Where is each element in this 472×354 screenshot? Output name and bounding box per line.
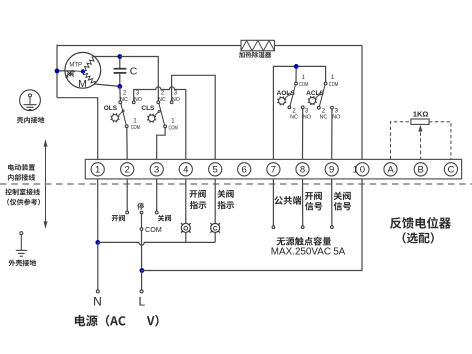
node: capacitor top junction [117, 54, 122, 59]
svg-text:MTP: MTP [69, 63, 82, 69]
label keinei [17, 117, 45, 124]
indicator lamp C (close) [210, 223, 220, 233]
terminal 3 [150, 163, 163, 176]
svg-text:0: 0 [360, 165, 365, 176]
motor winding left with thermal protector [57, 70, 75, 72]
svg-text:2: 2 [123, 90, 127, 96]
wire: heater return, terminal 10 down and left to L junction [142, 179, 362, 271]
terminal 9 [325, 163, 338, 176]
terminal strip box [85, 159, 461, 179]
dashed separator line (internal/external) [0, 183, 472, 185]
svg-text:3: 3 [136, 90, 140, 96]
label xuanpei [403, 232, 434, 243]
label dianyuan2 [147, 315, 159, 327]
stop button point [140, 211, 143, 214]
label guanfaxinhao2 [334, 202, 351, 210]
wire: N junction down to N [97, 242, 99, 290]
label gonggongduan [274, 196, 301, 205]
terminal 6 [238, 163, 251, 176]
wire: terminal 4 down to lamp O [185, 179, 187, 224]
svg-text:4: 4 [183, 165, 188, 176]
junction on COM bus [294, 64, 299, 69]
terminal 4 [179, 163, 192, 176]
wire: elbow to terminal 1 riser [57, 98, 98, 160]
label dianyuan1 [75, 315, 126, 327]
potentiometer wiper arrow [418, 125, 422, 132]
svg-text:8: 8 [300, 165, 305, 176]
junction at motor left [55, 69, 60, 74]
wire: N bus with hop over COM wire [98, 242, 215, 245]
label neibu [8, 174, 35, 181]
wire: AOLS NO to terminal 8 [302, 109, 304, 160]
svg-text:5A: 5A [333, 246, 345, 257]
svg-text:1KΩ: 1KΩ [413, 109, 428, 118]
label guanfazhishi2 [217, 201, 234, 209]
label heater [239, 52, 271, 58]
resistor 1K ohm body [411, 119, 429, 124]
label waike [9, 260, 37, 267]
label kaifazhishi2 [190, 201, 207, 209]
motor M circle [65, 52, 101, 88]
wire: OLS COM to terminal 2 [126, 128, 128, 160]
svg-text:M: M [78, 78, 87, 90]
wire: heater to right drop [275, 45, 363, 47]
wire: motor top to capacitor top node [95, 56, 120, 58]
CLS cam [148, 115, 155, 122]
wire: terminal 2 down to open-valve button point [126, 179, 128, 211]
svg-text:NC: NC [320, 114, 328, 120]
svg-text:1: 1 [95, 165, 100, 176]
label guanfaxinhao1 [334, 192, 351, 200]
wire: terminal 9 down to close signal point [331, 179, 333, 226]
arrow down (control room wiring) [45, 185, 47, 222]
arrow up (internal wiring) [45, 146, 47, 183]
ground symbol (inside shell) [20, 90, 41, 111]
junction on L wire [140, 268, 145, 273]
wire: terminal 7 down to common point [272, 179, 274, 226]
label stop-btn [137, 203, 144, 210]
svg-text:1: 1 [331, 75, 335, 81]
potentiometer dashed wire A [391, 122, 411, 159]
svg-text:COM: COM [169, 126, 178, 132]
label kaifazhishi1 [189, 190, 205, 198]
svg-text:6: 6 [242, 165, 247, 176]
svg-text:2: 2 [161, 90, 165, 96]
svg-text:COM: COM [131, 125, 140, 131]
motor center junction [81, 69, 85, 73]
svg-text:2: 2 [125, 165, 130, 176]
label kaifaxinhao1 [305, 192, 322, 200]
svg-text:1: 1 [302, 75, 306, 81]
label wuyuan [277, 237, 332, 246]
wire: terminal 8 down to open signal point [302, 179, 304, 226]
label diandong [8, 164, 35, 171]
COM point [140, 228, 143, 231]
wire: ACLS NO to terminal 9 [331, 109, 333, 159]
potentiometer dashed wire B [420, 132, 422, 159]
potentiometer dashed wire C [429, 122, 451, 159]
terminal 1 [91, 163, 104, 176]
svg-text:O: O [183, 225, 188, 232]
svg-text:L: L [139, 295, 146, 309]
svg-text:1: 1 [133, 118, 137, 124]
label jingong [7, 199, 40, 206]
svg-text:NO: NO [303, 114, 311, 120]
L terminal circle [140, 290, 143, 293]
svg-text:COM: COM [299, 82, 308, 88]
svg-text:C: C [213, 225, 218, 232]
wire: motor bottom to capacitor bottom node [94, 84, 119, 86]
terminal 8 [296, 163, 309, 176]
wire: left riser [56, 45, 58, 98]
motor winding upper-right (zigzag) [84, 57, 95, 71]
terminal C [444, 163, 457, 176]
OLS cam [112, 115, 119, 122]
label guanfa-btn [158, 215, 171, 222]
svg-text:NC: NC [290, 114, 298, 120]
AOLS cam [279, 98, 286, 105]
svg-text:N: N [93, 295, 102, 309]
svg-text:OLS: OLS [104, 105, 118, 112]
wire: top bus from left riser to heater [57, 45, 241, 47]
wire: terminal 1 down to N junction [97, 179, 99, 243]
motor winding lower-right (zigzag) [83, 72, 95, 84]
indicator lamp O (open) [181, 223, 191, 233]
wire: lamp C to N bus [214, 232, 216, 242]
ACLS cam [309, 97, 316, 104]
wire: terminal 7 riser and COM bus [273, 66, 325, 159]
svg-text:CLS: CLS [141, 105, 155, 112]
wire: terminal 5 down to lamp C [214, 179, 216, 224]
svg-text:3: 3 [174, 90, 178, 96]
ACLS lever COM-NC [319, 85, 325, 107]
wire: lamp O to N bus [185, 232, 187, 242]
svg-text:5: 5 [213, 165, 218, 176]
svg-text:C: C [447, 165, 454, 176]
junction on N wire [95, 240, 100, 245]
label kaifaxinhao2 [305, 202, 322, 210]
label guanfazhishi1 [217, 190, 233, 198]
svg-text:C: C [130, 65, 138, 77]
heater resistor 加热除湿器 [241, 40, 275, 51]
svg-text:COM: COM [145, 225, 162, 234]
wire: terminal 3 down to close-valve button point [156, 179, 158, 211]
terminal 5 [209, 163, 222, 176]
terminal A [384, 163, 397, 176]
wire: CLS COM jog to terminal 3 [157, 128, 165, 160]
terminal 10 [356, 163, 369, 176]
OLS lever NC-COM [121, 104, 126, 126]
wire: bus to AOLS COM [295, 66, 297, 82]
AOLS lever COM-NC [290, 85, 295, 106]
wire: OLS NO up and right to terminal 4 (with hops) [134, 87, 186, 160]
wire: L junction down to L [141, 271, 143, 291]
wire: CLS NO up and right to terminal 5 [172, 75, 216, 159]
svg-text:1: 1 [353, 165, 358, 176]
svg-text:7: 7 [271, 165, 276, 176]
wire: cap bottom node to OLS NC [119, 86, 122, 101]
label fankui [390, 217, 451, 229]
terminal 2 [121, 163, 134, 176]
N terminal circle [96, 290, 99, 293]
wire: stop to COM point [141, 214, 143, 228]
label kongzhi [5, 189, 40, 196]
svg-text:NO: NO [332, 114, 340, 120]
node: capacitor bottom junction [117, 84, 122, 89]
svg-text:B: B [418, 165, 424, 176]
wire: COM point down to L junction [141, 230, 143, 270]
ground symbol (shell earth) [16, 232, 27, 257]
terminal 7 [267, 163, 280, 176]
svg-text:A: A [387, 165, 394, 176]
svg-text:1: 1 [171, 118, 175, 124]
label kaifa-btn [112, 215, 125, 222]
wire: cap top node to CLS NC feed [120, 57, 159, 101]
capacitor C [119, 57, 121, 69]
svg-text:COM: COM [329, 82, 338, 88]
wire: right drop to terminal 10 [361, 46, 363, 160]
terminal B [414, 163, 427, 176]
svg-text:MAX.250VAC: MAX.250VAC [271, 246, 331, 257]
svg-text:3: 3 [154, 165, 159, 176]
svg-text:9: 9 [329, 165, 334, 176]
CLS lever NC-COM [159, 104, 165, 126]
